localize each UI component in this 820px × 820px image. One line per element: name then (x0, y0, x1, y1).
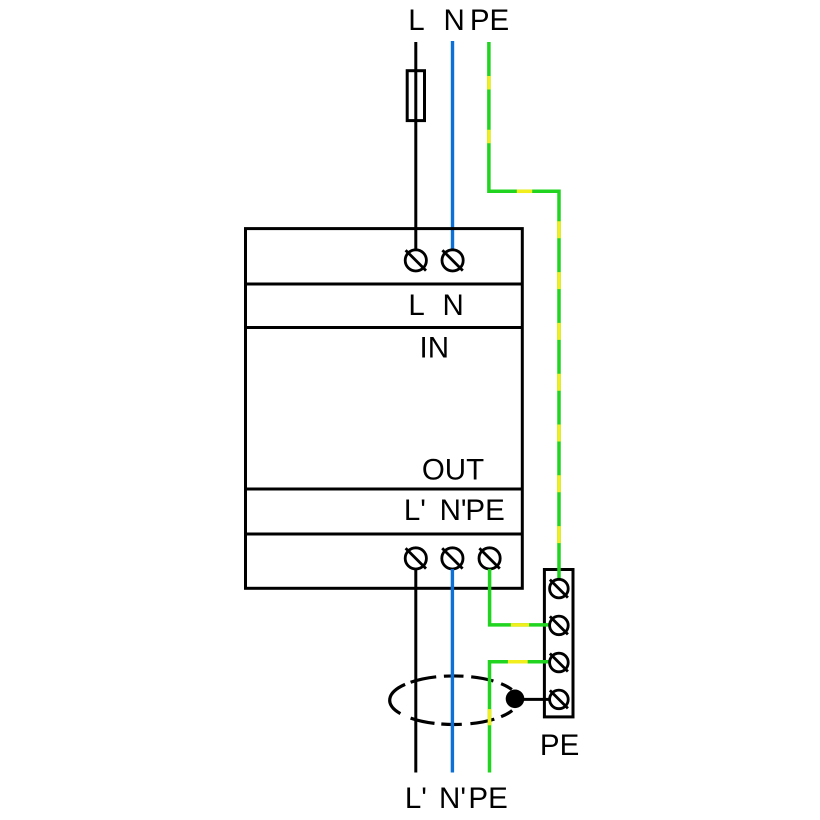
divider line 2 (246, 326, 523, 329)
wire PE incoming yellow dash seg1 (487, 42, 491, 191)
SPD device box U1 (246, 229, 523, 589)
svg-text:N: N (443, 4, 464, 37)
PE terminal block (544, 570, 573, 717)
wire PE block to bottom yellow dash h (490, 660, 550, 664)
terminal N input (442, 250, 463, 271)
svg-text:N: N (443, 289, 464, 322)
wire N incoming (451, 41, 454, 250)
wire PE output yellow dash (490, 623, 550, 627)
svg-text:PE: PE (540, 729, 579, 762)
terminal PE4 (550, 690, 569, 709)
svg-text:L: L (408, 4, 424, 37)
wire L incoming (414, 42, 417, 250)
wire L' outgoing (414, 569, 417, 773)
terminal L input (405, 250, 426, 271)
wire PE incoming yellow dash seg3 (557, 191, 561, 579)
terminal PE output (479, 548, 500, 569)
fuse F1 (407, 71, 424, 121)
svg-text:L': L' (404, 494, 426, 527)
wire screen to PE block (515, 698, 550, 701)
svg-text:N': N' (439, 782, 466, 815)
terminal PE1 (550, 579, 569, 598)
wire PE incoming (green) (489, 42, 559, 579)
divider line 4 (246, 533, 523, 536)
wire N' outgoing (451, 569, 454, 773)
svg-text:L: L (408, 289, 424, 322)
svg-text:PE: PE (470, 4, 509, 37)
terminal N' output (442, 548, 463, 569)
svg-text:IN: IN (420, 332, 450, 365)
wire PE block to bottom yellow dash v (488, 662, 492, 773)
wire PE output to block (green) (490, 569, 550, 625)
terminal PE3 (550, 653, 569, 672)
terminal L' output (405, 548, 426, 569)
svg-text:PE: PE (468, 782, 507, 815)
junction dot (screen connection) (506, 690, 525, 709)
svg-text:L': L' (405, 782, 427, 815)
cable screen ellipse (dashed) (390, 676, 512, 725)
svg-text:N': N' (440, 494, 467, 527)
divider line 3 (246, 488, 523, 491)
wire PE block to bottom (green) (490, 662, 550, 773)
wire PE incoming yellow dash seg2 (489, 190, 559, 194)
divider line 1 (246, 283, 523, 286)
svg-text:OUT: OUT (422, 454, 484, 487)
terminal PE2 (550, 616, 569, 635)
svg-text:PE: PE (465, 494, 504, 527)
